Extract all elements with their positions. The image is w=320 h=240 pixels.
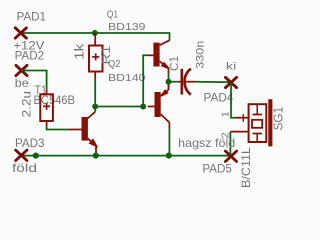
resistor R1 pin top xyxy=(94,33,96,46)
svg-text:BD139: BD139 xyxy=(108,21,146,33)
pad PAD5 xyxy=(225,151,236,161)
capacitor C2 pin bottom xyxy=(46,121,48,126)
wire Q2 collector to ground net xyxy=(168,128,170,156)
wire PAD2 to C2 xyxy=(22,71,47,89)
transistor Q2 collector xyxy=(161,114,170,122)
svg-text:be: be xyxy=(15,76,29,90)
svg-text:PAD3: PAD3 xyxy=(15,136,45,150)
resistor R1 pin bottom xyxy=(94,72,96,80)
svg-text:PAD2: PAD2 xyxy=(15,48,45,62)
pad PAD2 xyxy=(16,65,27,75)
wire R1 to base node xyxy=(94,79,96,107)
node base wire (T1 collector to Q1/Q2 bases) xyxy=(95,55,147,106)
wire PAD4 to buzzer pin 1 xyxy=(231,83,236,118)
svg-text:B/C11L: B/C11L xyxy=(239,147,253,188)
capacitor C2 pin top xyxy=(46,88,48,94)
transistor Q1 collector xyxy=(160,40,170,45)
transistor Q2 emitter with arrow xyxy=(161,85,169,97)
resistor R1 body (box with +) xyxy=(89,46,103,72)
pad PAD1 xyxy=(15,28,26,38)
svg-text:PAD1: PAD1 xyxy=(17,9,47,23)
capacitor C1 pin right xyxy=(185,81,196,83)
svg-text:ki: ki xyxy=(226,61,237,72)
wire Q1 emitter to Q2 emitter xyxy=(168,71,170,90)
transistor Q1 emitter with arrow xyxy=(160,61,169,73)
transistor Q2 base pin xyxy=(148,106,155,108)
junction Q2 collector xyxy=(166,153,172,159)
capacitor C1 plate curved xyxy=(185,69,191,95)
svg-text:1k: 1k xyxy=(72,43,87,60)
svg-text:hagsz föld: hagsz föld xyxy=(178,136,235,150)
transistor Q1 body BD139 xyxy=(153,43,159,67)
svg-text:BD140: BD140 xyxy=(108,72,146,84)
capacitor C1 pin left xyxy=(177,81,181,83)
capacitor C1 plate straight xyxy=(181,69,184,95)
svg-text:C1: C1 xyxy=(167,56,181,71)
wire C1 to PAD4 xyxy=(196,81,231,84)
svg-text:föld: föld xyxy=(12,161,37,175)
transistor Q2 body BD140 xyxy=(155,92,161,117)
polarity + mark xyxy=(242,114,244,122)
transistor T1 collector xyxy=(87,112,95,119)
junction output node xyxy=(166,79,172,85)
junction T1 emitter xyxy=(93,153,99,159)
wire +12V net top xyxy=(21,33,170,41)
capacitor C2 body (polarized box with +) xyxy=(40,94,53,121)
wire C2 to T1 base xyxy=(47,126,69,129)
pad PAD4 xyxy=(225,77,236,87)
buzzer SG1 pin 1 xyxy=(236,117,249,119)
ground net wire xyxy=(21,155,231,157)
svg-text:SG1: SG1 xyxy=(271,107,285,131)
svg-text:1: 1 xyxy=(220,111,232,117)
transistor T1 emitter with arrow xyxy=(88,138,97,155)
buzzer SG1 pin 2 xyxy=(230,131,248,133)
transistor T1 body xyxy=(82,117,88,141)
wire output node to C1 xyxy=(169,81,178,83)
junction on +12V net at R1 xyxy=(92,30,98,36)
wire buzzer pin 2 to ground net xyxy=(229,132,231,156)
svg-text:Q1: Q1 xyxy=(107,9,119,21)
svg-text:PAD5: PAD5 xyxy=(202,161,232,175)
svg-text:2.2u: 2.2u xyxy=(22,91,34,118)
junction PAD3 xyxy=(33,153,39,159)
transistor Q1 base pin xyxy=(148,54,154,56)
buzzer SG1 body xyxy=(249,99,273,146)
transistor T1 base pin xyxy=(68,129,81,131)
pad PAD3 xyxy=(16,150,27,160)
svg-text:Q2: Q2 xyxy=(108,58,121,70)
svg-text:PAD4: PAD4 xyxy=(204,90,234,104)
svg-text:330n: 330n xyxy=(194,41,206,69)
